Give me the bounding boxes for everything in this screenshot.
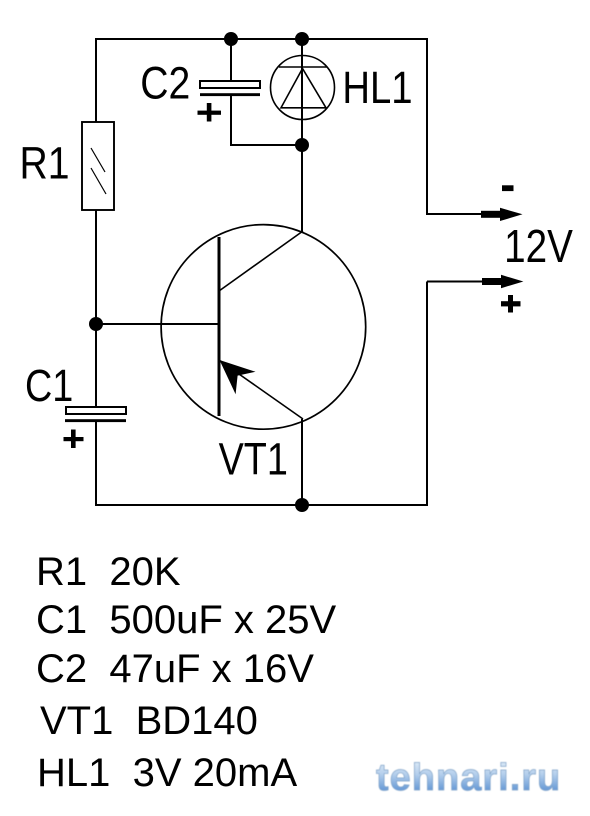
svg-text:R1 20K: R1 20K <box>36 550 181 594</box>
wire left rail lower (C1 to bottom rail) <box>95 422 97 506</box>
junction HL1 bottom node <box>295 138 309 152</box>
wire base (node to VT1 base) <box>96 323 219 325</box>
svg-text:C1 500uF x 25V: C1 500uF x 25V <box>36 598 336 642</box>
svg-text:HL1: HL1 <box>342 62 412 113</box>
label HL1 <box>342 62 412 113</box>
watermark tehnari.ru <box>376 757 561 799</box>
capacitor C2 <box>200 81 260 96</box>
svg-text:tehnari.ru: tehnari.ru <box>376 757 561 799</box>
wire C2 lower lead <box>230 96 232 146</box>
label R1 <box>20 138 70 188</box>
svg-text:C1: C1 <box>25 360 73 411</box>
lamp HL1 <box>271 56 335 121</box>
wire collector lead <box>301 145 303 232</box>
junction base node <box>89 317 103 331</box>
label minus <box>502 185 514 191</box>
arrow minus terminal <box>481 208 523 221</box>
resistor R1 <box>82 122 114 210</box>
svg-text:HL1 3V 20mA: HL1 3V 20mA <box>37 751 297 795</box>
wire C2 to HL1 bottom node <box>230 144 302 146</box>
svg-text:VT1: VT1 <box>219 433 288 484</box>
wire minus terminal <box>427 213 487 215</box>
wire HL1 upper lead <box>301 39 303 56</box>
svg-text:C2: C2 <box>140 58 190 108</box>
transistor VT1 <box>161 225 366 430</box>
junction HL1 top node <box>295 32 309 46</box>
junction C2 top node <box>224 32 238 46</box>
label 12V <box>504 221 573 272</box>
wire emitter lead <box>301 419 303 505</box>
wire right rail upper <box>426 38 428 215</box>
wire bottom rail <box>96 504 428 506</box>
plus mark C1 <box>64 430 84 449</box>
capacitor C1 <box>65 407 126 422</box>
wire HL1 lower lead <box>301 120 303 146</box>
wire right rail lower <box>426 282 428 507</box>
wire C2 upper lead <box>230 39 232 82</box>
label VT1 <box>219 433 288 484</box>
wire left rail upper (top rail to R1) <box>95 38 97 123</box>
svg-text:C2 47uF x 16V: C2 47uF x 16V <box>36 647 314 691</box>
wire left rail middle (R1 to C1) <box>95 210 97 407</box>
label C2 <box>140 58 190 108</box>
svg-text:VT1 BD140: VT1 BD140 <box>40 699 258 743</box>
label plus <box>501 295 521 313</box>
svg-text:12V: 12V <box>504 221 573 272</box>
wire plus terminal <box>427 281 487 283</box>
svg-text:R1: R1 <box>20 138 70 188</box>
junction emitter-bottom node <box>295 498 309 512</box>
label C1 <box>25 360 73 411</box>
arrow plus terminal <box>482 275 523 288</box>
wire top rail <box>96 38 427 40</box>
plus mark C2 <box>198 103 222 122</box>
